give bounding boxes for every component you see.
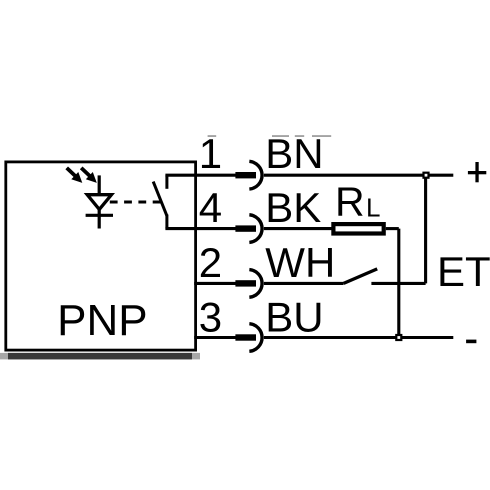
- minus terminal: [466, 340, 476, 344]
- photodiode D1: top lead: [98, 175, 101, 193]
- switch ET blade: [344, 269, 378, 284]
- svg-text:R: R: [335, 179, 365, 225]
- dashed control line from photodiode to switch: [110, 201, 161, 204]
- svg-text:WH: WH: [265, 239, 335, 286]
- wire WH to switch: [264, 282, 344, 285]
- svg-text:4: 4: [199, 184, 222, 231]
- switch S1 bottom contact: [165, 215, 168, 229]
- light arrow 2: [81, 168, 97, 183]
- svg-text:L: L: [366, 193, 380, 223]
- photodiode D1: bottom lead: [98, 209, 101, 229]
- wire pin4 (inside box to connector): [165, 227, 235, 230]
- junction node on minus line: [396, 335, 401, 340]
- svg-text:3: 3: [199, 294, 222, 341]
- light arrow 1: [67, 168, 83, 183]
- wire BK to resistor: [264, 227, 332, 230]
- svg-text:ET: ET: [437, 248, 490, 295]
- sensor box shadow: [0, 353, 200, 360]
- wire pin2 (box edge to connector): [194, 282, 235, 285]
- wire BN to plus: [264, 174, 453, 177]
- connector pin 1 (male contact): [235, 172, 256, 178]
- ghost dashes (faint gray artifacts above labels): [208, 135, 332, 137]
- svg-text:1: 1: [199, 130, 222, 177]
- wire BU to minus: [264, 336, 453, 339]
- vertical riser to plus line: [424, 175, 427, 283]
- connector pin 2 (male contact): [235, 280, 256, 286]
- plus terminal: [468, 162, 486, 182]
- svg-text:BU: BU: [265, 294, 323, 341]
- connector pin 4 (male contact): [235, 225, 256, 231]
- svg-text:2: 2: [199, 239, 222, 286]
- photodiode D1: triangle: [87, 195, 111, 210]
- wire switch to vertical riser: [371, 282, 425, 285]
- wire pin3 (box edge to connector): [194, 336, 235, 339]
- svg-text:BN: BN: [265, 130, 323, 177]
- resistor RL: [333, 224, 383, 233]
- connector pin 3 (male contact): [235, 334, 256, 340]
- connector socket 3 (female arc): [249, 324, 262, 352]
- wire pin1 (inside box to connector): [165, 174, 235, 177]
- switch S1 top contact: [165, 175, 168, 189]
- connector socket 4 (female arc): [249, 215, 262, 243]
- sensor box U1: [6, 162, 196, 350]
- junction node on plus line: [424, 173, 429, 178]
- connector socket 1 (female arc): [249, 161, 262, 189]
- svg-text:PNP: PNP: [57, 296, 147, 345]
- switch S1 blade: [153, 182, 167, 216]
- svg-text:BK: BK: [265, 184, 321, 231]
- vertical wire resistor to minus line: [397, 229, 400, 338]
- wire resistor to vertical: [386, 227, 399, 230]
- photodiode D1: cathode bar: [86, 214, 113, 217]
- connector socket 2 (female arc): [249, 270, 262, 298]
